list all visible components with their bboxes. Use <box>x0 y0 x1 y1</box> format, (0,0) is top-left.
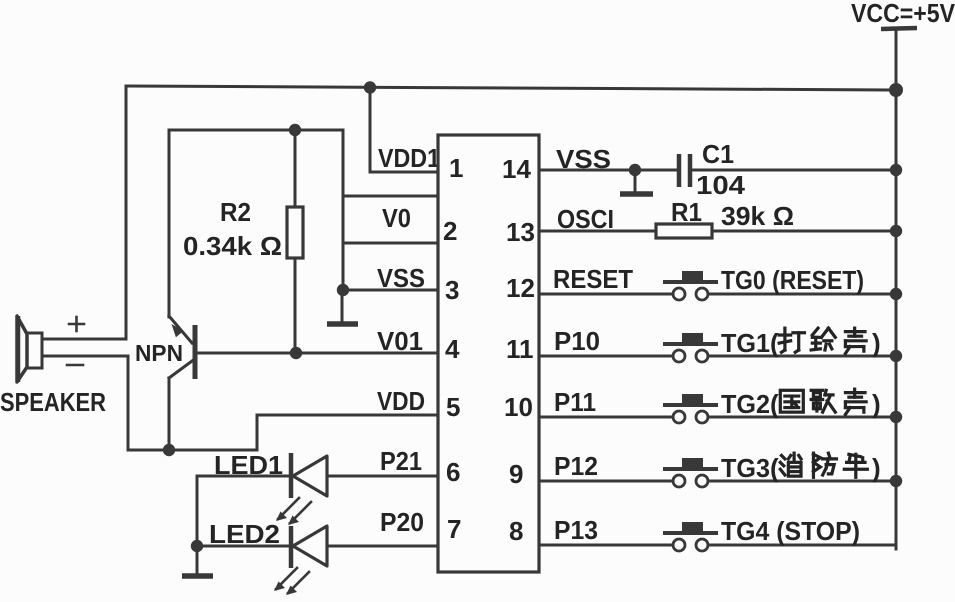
label speaker plus <box>69 317 84 331</box>
svg-text:NPN: NPN <box>135 340 183 366</box>
wire: inner loop left vertical to emitter <box>168 130 171 317</box>
wire: TG0 to VCC rail <box>708 293 896 296</box>
svg-text:VDD1: VDD1 <box>378 143 440 173</box>
svg-text:P21: P21 <box>380 446 422 476</box>
svg-text:1: 1 <box>449 153 463 183</box>
node junction C1 wire / VCC rail <box>890 164 902 176</box>
wire: VDD1 branch to pin1 <box>370 88 438 172</box>
svg-text:(: ( <box>770 453 779 483</box>
wire: pin row P10 left segment <box>539 355 673 358</box>
wire: VSS left stub pin3 <box>343 289 438 292</box>
wire: pin row RESET left segment <box>539 293 673 296</box>
node junction collector / bottom run <box>163 444 175 456</box>
wire: R1 to VCC rail <box>712 230 896 233</box>
svg-text:TG0 (RESET): TG0 (RESET) <box>721 265 864 295</box>
svg-text:14: 14 <box>502 154 531 184</box>
svg-text:VCC=+5V: VCC=+5V <box>851 0 955 28</box>
svg-text:TG2: TG2 <box>721 389 770 419</box>
wire: left vertical from top rail to speaker + <box>125 86 128 339</box>
svg-text:LED2: LED2 <box>209 519 280 549</box>
svg-text:TG3: TG3 <box>721 453 770 483</box>
svg-text:R2: R2 <box>220 197 251 227</box>
svg-text:LED1: LED1 <box>214 450 283 480</box>
svg-text:P12: P12 <box>554 451 598 481</box>
wire: inner loop top <box>169 129 343 132</box>
wire: VCC vertical rail <box>895 29 898 549</box>
ground below LEDs <box>182 546 213 576</box>
wire: TG3 to VCC rail <box>708 480 896 483</box>
svg-text:TG4 (STOP): TG4 (STOP) <box>721 516 860 546</box>
wire: inner loop right vertical <box>342 130 345 290</box>
svg-text:104: 104 <box>696 170 746 200</box>
wire: top horizontal rail <box>126 86 896 90</box>
wire: V0 row upper stub <box>343 195 438 198</box>
switch TG1 push-button <box>663 333 718 362</box>
LED LED1 <box>276 453 327 525</box>
label TG1 (dalingsheng) <box>721 328 881 358</box>
svg-text:7: 7 <box>447 514 461 544</box>
svg-text:4: 4 <box>445 334 460 364</box>
svg-text:V0: V0 <box>382 203 411 233</box>
wire: TG4 to VCC rail <box>708 544 896 547</box>
transistor Q1 NPN <box>169 316 195 450</box>
node junction R1 wire / VCC rail <box>890 225 902 237</box>
wire: pin row P11 left segment <box>539 416 673 419</box>
node junction top-rail / VCC rail <box>889 83 903 97</box>
svg-text:VDD: VDD <box>377 386 425 416</box>
wire: pin row P13 left segment <box>539 544 673 547</box>
wire: speaker plus lead <box>42 338 126 341</box>
svg-text:VSS: VSS <box>377 263 425 293</box>
speaker SPEAKER <box>17 316 42 382</box>
power terminal VCC bar <box>881 28 917 29</box>
svg-text:P11: P11 <box>554 387 596 417</box>
label TG2 (guogesheng) <box>721 389 881 419</box>
node junction top-rail / VDD1 branch <box>364 81 376 93</box>
LED LED2 <box>274 526 327 595</box>
wire: bottom run to VDD pin5 <box>128 415 438 450</box>
svg-text:39k Ω: 39k Ω <box>721 201 794 231</box>
resistor R1 <box>656 224 712 238</box>
wire: pin13 OSC to R1 <box>539 230 656 233</box>
wire: V0 row lower stub <box>343 242 438 245</box>
svg-text:0.34k Ω: 0.34k Ω <box>183 231 282 261</box>
wire: pin14 VSS to C1 <box>539 169 676 172</box>
node junction TG3 row / VCC rail <box>890 475 902 487</box>
wire: TG1 to VCC rail <box>708 355 896 358</box>
wire: base to V01 pin4 <box>197 352 438 355</box>
svg-text:(: ( <box>770 389 779 419</box>
op-amp/IC U1 body <box>438 135 539 572</box>
svg-text:VSS: VSS <box>556 144 611 174</box>
node junction TG0 row / VCC rail <box>890 288 902 300</box>
label TG3 (xiaofangche) <box>721 453 881 483</box>
svg-text:10: 10 <box>504 392 533 422</box>
capacitor C1 <box>679 154 690 187</box>
svg-text:P20: P20 <box>380 507 424 537</box>
node junction R2 top <box>289 124 301 136</box>
svg-text:9: 9 <box>509 459 523 489</box>
svg-text:RESET: RESET <box>553 264 633 294</box>
svg-text:P13: P13 <box>554 515 598 545</box>
switch TG3 push-button <box>663 458 718 487</box>
node junction VSS-left / ground <box>337 284 349 296</box>
svg-text:): ) <box>872 453 881 483</box>
wire: C1 to VCC rail <box>690 169 896 172</box>
svg-text:2: 2 <box>443 216 457 246</box>
node junction R2 bottom / base / V01 <box>290 347 302 359</box>
wire: pin row P12 left segment <box>539 480 673 483</box>
wire: speaker minus lead down to bottom run <box>42 356 128 450</box>
svg-text:5: 5 <box>446 392 460 422</box>
svg-text:OSCI: OSCI <box>557 204 614 234</box>
node junction VSS / ground <box>629 164 641 176</box>
ground below VSS wire <box>620 170 653 194</box>
svg-text:V01: V01 <box>377 326 423 356</box>
svg-text:): ) <box>872 389 881 419</box>
svg-text:6: 6 <box>446 457 460 487</box>
svg-text:8: 8 <box>509 516 523 546</box>
switch TG4 push-button <box>663 522 718 551</box>
svg-text:P10: P10 <box>554 326 600 356</box>
wire: TG2 to VCC rail <box>708 416 896 419</box>
node junction LED rail / ground <box>191 540 203 552</box>
svg-text:11: 11 <box>506 334 534 364</box>
node junction TG1 row / VCC rail <box>890 350 902 362</box>
svg-text:C1: C1 <box>702 139 734 169</box>
wire: LED2 anode to P20 pin7 <box>327 545 438 548</box>
wire: LED2 cathode lead <box>197 545 291 548</box>
wire: LED1 cathode lead <box>197 475 291 478</box>
svg-text:3: 3 <box>445 275 459 305</box>
svg-text:): ) <box>872 328 881 358</box>
node junction TG2 row / VCC rail <box>890 411 902 423</box>
svg-text:13: 13 <box>506 217 535 247</box>
resistor R2 <box>287 130 303 353</box>
wire: LED1 anode to P21 pin6 <box>327 475 438 478</box>
svg-text:SPEAKER: SPEAKER <box>0 387 106 417</box>
svg-text:R1: R1 <box>671 197 702 227</box>
ground below VSS left <box>327 290 358 324</box>
svg-text:TG1: TG1 <box>721 328 770 358</box>
label speaker minus <box>67 364 83 367</box>
switch TG0 push-button <box>663 271 718 300</box>
svg-text:12: 12 <box>506 273 535 303</box>
switch TG2 push-button <box>663 394 718 423</box>
wire: LED cathode rail vertical <box>196 476 199 546</box>
